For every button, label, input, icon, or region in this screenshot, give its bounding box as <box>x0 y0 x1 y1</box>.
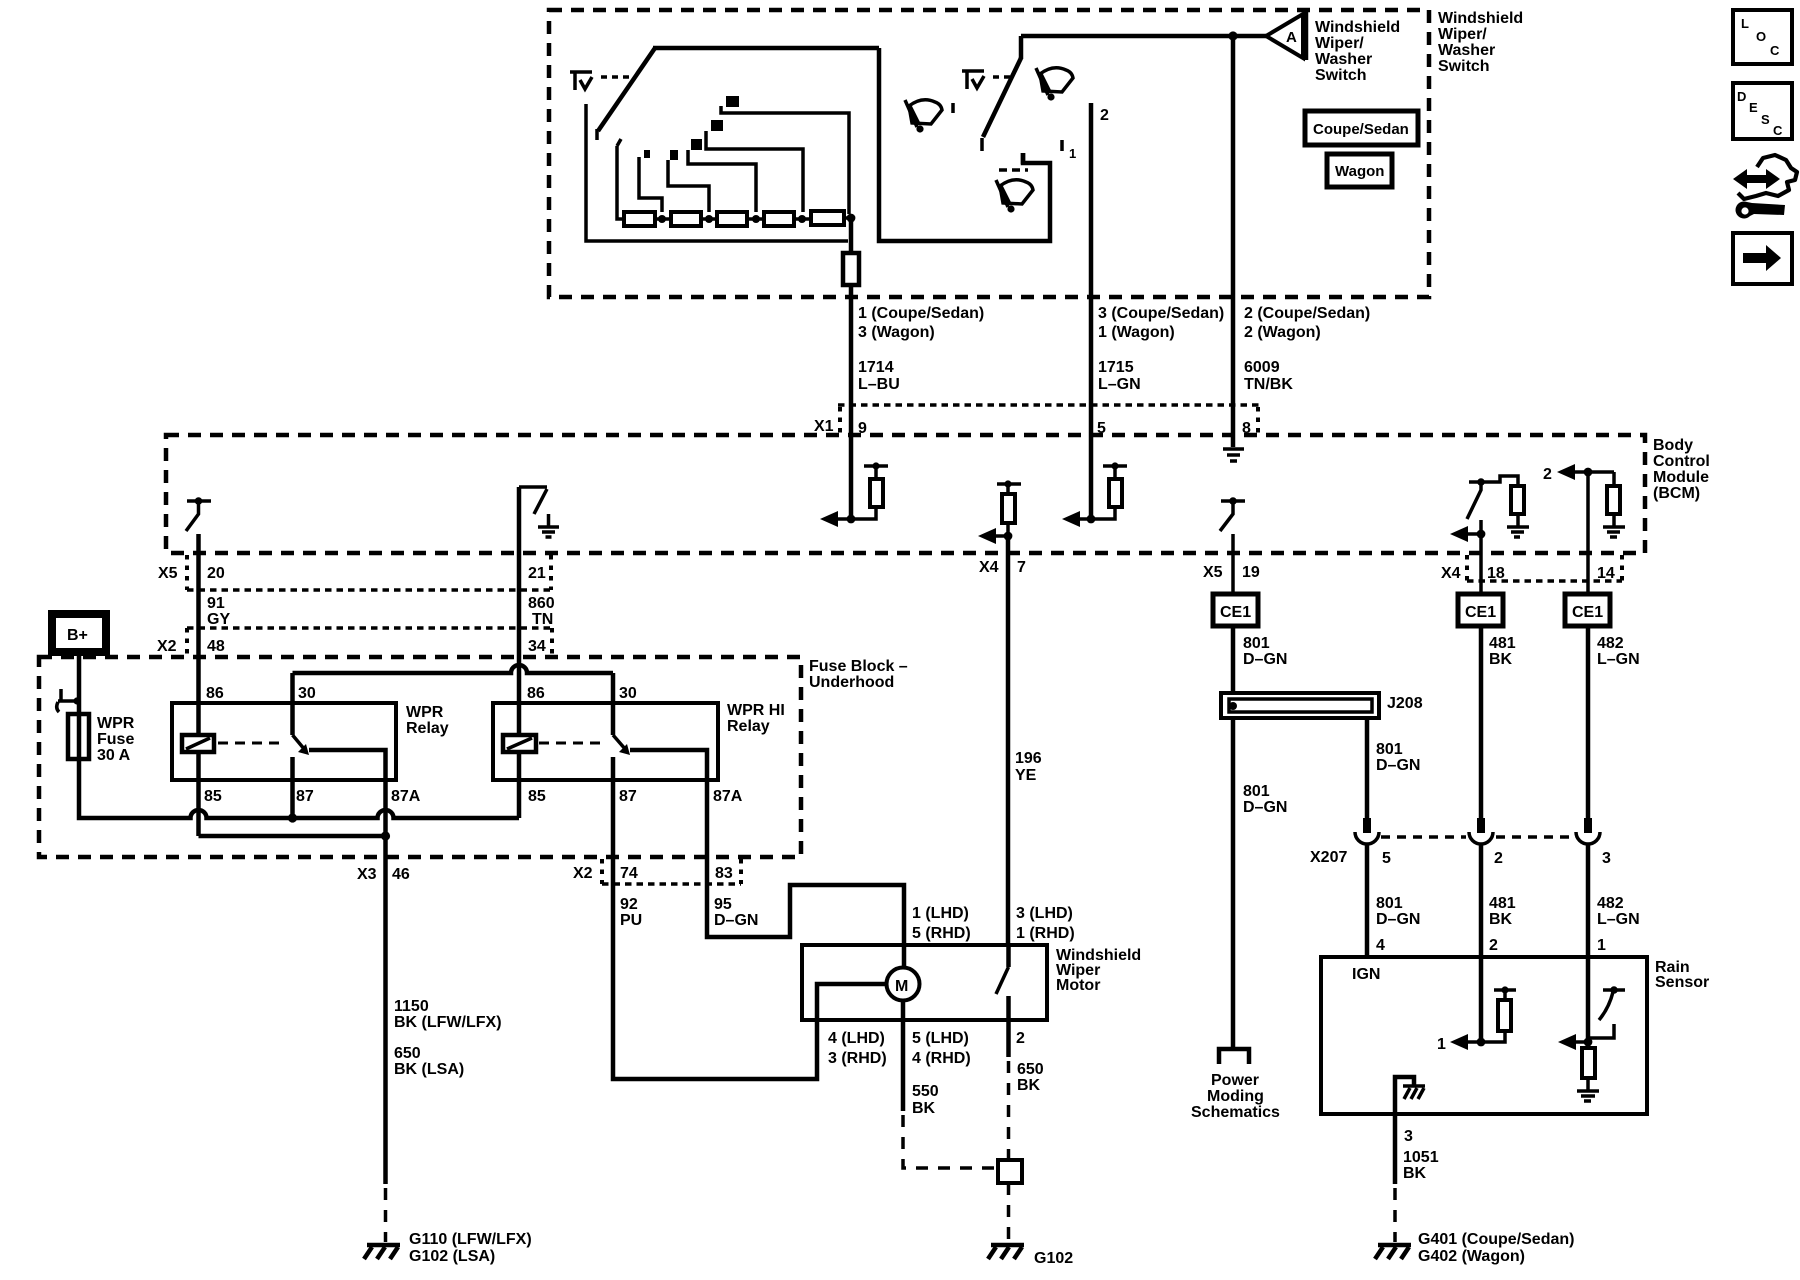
svg-text:O: O <box>1756 29 1766 44</box>
resistor R4 (delay ladder) <box>747 212 794 226</box>
washer switch t/v glyph + dashes <box>962 71 1011 89</box>
BCM pin 8 internal ground <box>1223 449 1244 461</box>
svg-text:801: 801 <box>1243 635 1270 652</box>
page icon: harness arrows + wrench <box>1733 155 1797 218</box>
wire 481 BK to rain sensor pin 2 <box>1481 843 1516 1042</box>
svg-text:801: 801 <box>1376 895 1403 912</box>
svg-text:YE: YE <box>1015 767 1037 784</box>
resistor R1 (delay ladder) <box>624 212 655 226</box>
svg-text:L–BU: L–BU <box>858 376 900 393</box>
svg-text:1 (Coupe/Sedan): 1 (Coupe/Sedan) <box>858 305 984 322</box>
wire 1051 BK to ground <box>1395 1114 1439 1242</box>
connector X207 pin 2 <box>1469 818 1493 844</box>
svg-text:Windshield: Windshield <box>1438 10 1523 27</box>
svg-text:550: 550 <box>912 1083 939 1100</box>
washer switch arm <box>982 58 1021 151</box>
rain sensor pin2 internal: arrow + resistor <box>1437 986 1516 1053</box>
svg-text:14: 14 <box>1597 565 1615 582</box>
label 196 YE <box>1015 750 1042 784</box>
connector X5 row (left) <box>158 555 551 590</box>
svg-text:Wiper/: Wiper/ <box>1438 26 1487 43</box>
tap wire D (position 2 contact) <box>668 150 709 212</box>
windshield wiper/washer switch dashed enclosure <box>549 10 1429 297</box>
relay WPR pin 87 stub <box>290 757 295 818</box>
svg-text:Coupe/Sedan: Coupe/Sedan <box>1313 121 1409 138</box>
connector CE1 (col 1) <box>1213 594 1258 626</box>
ground G401/G402 symbol <box>1375 1231 1574 1265</box>
tap wire B (position 4 contact) <box>706 120 803 212</box>
svg-text:650: 650 <box>394 1045 421 1062</box>
svg-text:83: 83 <box>715 865 733 882</box>
BCM output switch pin 18 + resistor to ground + arrow <box>1450 476 1529 594</box>
relay WPR HI: box <box>493 702 785 780</box>
ground G110/G102 symbol <box>364 1231 532 1265</box>
connector X2 row (left) <box>157 628 554 655</box>
wire: loop from top line to washer contact 1 <box>879 48 1050 241</box>
svg-text:2: 2 <box>1543 466 1552 483</box>
svg-text:Sensor: Sensor <box>1655 974 1709 991</box>
connector CE1 (col 2) <box>1458 594 1503 626</box>
wire splice to ground G102 <box>1007 1183 1011 1242</box>
ground G102 symbol <box>988 1245 1073 1267</box>
svg-text:BK (LSA): BK (LSA) <box>394 1061 464 1078</box>
svg-text:1: 1 <box>1597 937 1606 954</box>
svg-text:D–GN: D–GN <box>1376 757 1420 774</box>
svg-text:BK: BK <box>1489 651 1513 668</box>
fuse WPR 30A <box>68 714 135 764</box>
svg-text:Switch: Switch <box>1438 58 1490 75</box>
svg-text:WPR: WPR <box>97 715 135 732</box>
labels: pin 3/1 wire 1715 L-GN <box>1098 305 1224 393</box>
svg-text:2: 2 <box>1016 1030 1025 1047</box>
svg-text:87: 87 <box>296 788 314 805</box>
connector X207 pin 5 <box>1355 818 1379 844</box>
wire 801 D-GN: J208 to X207-5 <box>1367 718 1420 820</box>
svg-text:X2: X2 <box>157 638 177 655</box>
svg-text:1051: 1051 <box>1403 1149 1439 1166</box>
wire 801 D-GN: CE1 to J208 <box>1233 626 1287 693</box>
splice pack J208 <box>1221 693 1423 718</box>
svg-text:D–GN: D–GN <box>1243 799 1287 816</box>
labels 91 GY / 860 TN <box>207 595 555 628</box>
svg-text:D–GN: D–GN <box>714 912 758 929</box>
svg-text:X2: X2 <box>573 865 593 882</box>
svg-text:WPR: WPR <box>406 704 444 721</box>
wire: switch A pivot feed top line <box>653 46 879 51</box>
wiper delay switch SW-A symbol (t/v glyph + dashes) <box>570 72 629 90</box>
label box: Wagon <box>1327 154 1392 187</box>
junction dots on ladder <box>658 214 855 223</box>
svg-text:TN: TN <box>532 611 553 628</box>
svg-text:2: 2 <box>1489 937 1498 954</box>
svg-text:L–GN: L–GN <box>1597 911 1640 928</box>
wiper icon 2 <box>1036 68 1073 101</box>
svg-text:482: 482 <box>1597 895 1624 912</box>
wiper delay switch arm <box>597 48 655 140</box>
svg-text:GY: GY <box>207 611 230 628</box>
svg-text:3 (Wagon): 3 (Wagon) <box>858 324 935 341</box>
svg-text:TN/BK: TN/BK <box>1244 376 1293 393</box>
connector CE1 (col 3) <box>1565 594 1610 626</box>
svg-text:A: A <box>1286 29 1297 46</box>
body control module dashed enclosure <box>166 435 1645 553</box>
wire 1714 L-BU drop to BCM pin 9 <box>849 285 854 519</box>
svg-text:C: C <box>1773 123 1783 138</box>
svg-text:19: 19 <box>1242 564 1260 581</box>
svg-text:Wagon: Wagon <box>1335 163 1384 180</box>
svg-text:46: 46 <box>392 866 410 883</box>
svg-text:J208: J208 <box>1387 695 1423 712</box>
label: windshield wiper/washer switch (outside) <box>1438 10 1523 75</box>
wiper icon 1 <box>905 100 953 133</box>
labels 92 PU / 95 D-GN <box>620 896 758 929</box>
relay WPR HI coil-contact link <box>539 742 604 745</box>
BCM output switch pin 19 <box>1220 497 1245 594</box>
connector X207 pin 3 <box>1576 818 1600 844</box>
relay WPR coil-contact link <box>218 742 283 745</box>
relay WPR contact 87A path <box>309 750 386 836</box>
svg-text:801: 801 <box>1376 741 1403 758</box>
svg-text:G102 (LSA): G102 (LSA) <box>409 1248 495 1265</box>
connector X3/46 labels <box>357 866 410 883</box>
svg-text:5 (RHD): 5 (RHD) <box>912 925 971 942</box>
svg-text:3: 3 <box>1602 850 1611 867</box>
svg-text:D–GN: D–GN <box>1243 651 1287 668</box>
svg-text:X3: X3 <box>357 866 377 883</box>
labels: pin 1/3 wire 1714 L-BU <box>858 305 984 393</box>
wire: relay coil/87A common to ground feed <box>199 831 391 840</box>
svg-text:34: 34 <box>528 638 546 655</box>
BCM output switch pin 21 with ground <box>519 487 559 537</box>
wire 650 BK from motor pin 2 <box>1009 1020 1044 1160</box>
connector X4 row (right) <box>1441 555 1622 582</box>
wire: relay 30 bus (hops relay2 86 wire) <box>293 665 614 673</box>
svg-text:2: 2 <box>1494 850 1503 867</box>
svg-text:Power: Power <box>1211 1072 1259 1089</box>
label: Body Control Module (BCM) <box>1653 437 1710 502</box>
svg-text:X5: X5 <box>1203 564 1223 581</box>
label: windshield wiper/washer switch (inside) <box>1315 19 1400 84</box>
svg-text:21: 21 <box>528 565 546 582</box>
svg-text:30: 30 <box>298 685 316 702</box>
svg-text:G401 (Coupe/Sedan): G401 (Coupe/Sedan) <box>1418 1231 1574 1248</box>
relay WPR pin 30 wire + contact arm <box>293 673 310 755</box>
labels 1150 BK / 650 BK <box>394 998 502 1078</box>
BCM output 2 arrow + resistor to ground, pin 14 <box>1543 464 1625 594</box>
svg-text:2 (Coupe/Sedan): 2 (Coupe/Sedan) <box>1244 305 1370 322</box>
svg-text:4: 4 <box>1376 937 1385 954</box>
svg-text:X1: X1 <box>814 418 834 435</box>
svg-text:Body: Body <box>1653 437 1693 454</box>
wire 1150/650 BK to ground <box>383 836 388 1242</box>
svg-text:C: C <box>1770 43 1780 58</box>
svg-text:1714: 1714 <box>858 359 894 376</box>
relay WPR pin 85 wire <box>196 752 201 836</box>
svg-text:Control: Control <box>1653 453 1710 470</box>
svg-text:Washer: Washer <box>1438 42 1495 59</box>
svg-text:X4: X4 <box>979 559 999 576</box>
svg-text:BK: BK <box>912 1100 936 1117</box>
svg-text:IGN: IGN <box>1352 966 1380 983</box>
svg-text:(BCM): (BCM) <box>1653 485 1700 502</box>
off-page connector to power moding <box>1191 1049 1280 1121</box>
tap wire A (position 5 contact) <box>721 96 849 214</box>
svg-text:X4: X4 <box>1441 565 1461 582</box>
wire 95 D-GN: relay2 87A to motor <box>707 884 904 968</box>
svg-text:4 (LHD): 4 (LHD) <box>828 1030 885 1047</box>
svg-text:7: 7 <box>1017 559 1026 576</box>
labels: pin 2/2 wire 6009 TN/BK <box>1244 305 1370 393</box>
BCM pin 5 input: arrow + resistor <box>1062 462 1127 527</box>
svg-text:Underhood: Underhood <box>809 674 894 691</box>
svg-text:B+: B+ <box>67 627 88 644</box>
svg-text:WPR HI: WPR HI <box>727 702 785 719</box>
svg-text:3 (Coupe/Sedan): 3 (Coupe/Sedan) <box>1098 305 1224 322</box>
svg-text:1150: 1150 <box>394 998 429 1015</box>
svg-text:D: D <box>1737 89 1746 104</box>
svg-text:481: 481 <box>1489 635 1516 652</box>
svg-text:196: 196 <box>1015 750 1042 767</box>
svg-text:CE1: CE1 <box>1465 604 1496 621</box>
svg-text:30 A: 30 A <box>97 747 131 764</box>
svg-text:3 (RHD): 3 (RHD) <box>828 1050 887 1067</box>
svg-text:Relay: Relay <box>727 718 770 735</box>
motor pin labels bottom <box>828 1030 1025 1067</box>
svg-text:X207: X207 <box>1310 849 1347 866</box>
svg-text:5: 5 <box>1382 850 1391 867</box>
relay WPR HI pin 30 wire + contact arm <box>613 673 630 755</box>
svg-text:18: 18 <box>1487 565 1505 582</box>
svg-text:6009: 6009 <box>1244 359 1280 376</box>
connector triangle A <box>1266 12 1306 60</box>
connector X207 links <box>1310 837 1611 867</box>
svg-text:85: 85 <box>528 788 546 805</box>
svg-text:95: 95 <box>714 896 732 913</box>
page icon: DESC box <box>1733 83 1792 139</box>
svg-text:85: 85 <box>204 788 222 805</box>
motor pin labels top <box>912 905 1075 942</box>
wire: ladder left lead <box>617 139 624 219</box>
svg-text:481: 481 <box>1489 895 1516 912</box>
relay WPR HI contact 87A path <box>630 750 707 884</box>
svg-text:Wiper/: Wiper/ <box>1315 35 1364 52</box>
svg-text:1 (RHD): 1 (RHD) <box>1016 925 1075 942</box>
relay WPR HI pin 85 wire <box>517 752 522 818</box>
svg-text:860: 860 <box>528 595 555 612</box>
svg-text:G402 (Wagon): G402 (Wagon) <box>1418 1248 1525 1265</box>
wire 550 BK from motor brush <box>903 1000 994 1168</box>
motor M symbol <box>887 968 920 1001</box>
svg-text:30: 30 <box>619 685 637 702</box>
svg-text:G102: G102 <box>1034 1250 1073 1267</box>
resistor R2 (delay ladder) <box>655 212 701 226</box>
wire: fused B+ feed to relay contacts (hops at 85 and 87A) <box>79 759 519 823</box>
svg-text:86: 86 <box>206 685 224 702</box>
wire to connector A (top feed) <box>1021 31 1266 59</box>
wire 860 TN (BCM 21 to relay coil 86) <box>517 487 522 735</box>
svg-text:BK: BK <box>1017 1077 1041 1094</box>
svg-text:E: E <box>1749 100 1758 115</box>
relay WPR HI pin 87 stub <box>611 757 616 884</box>
svg-text:91: 91 <box>207 595 225 612</box>
svg-text:L–GN: L–GN <box>1098 376 1141 393</box>
resistor R3 (delay ladder) <box>701 212 747 226</box>
svg-text:Fuse Block –: Fuse Block – <box>809 658 908 675</box>
svg-text:20: 20 <box>207 565 225 582</box>
svg-text:Schematics: Schematics <box>1191 1104 1280 1121</box>
svg-text:2: 2 <box>1100 107 1109 124</box>
BCM output switch pin 20 <box>186 497 211 531</box>
rain sensor pin3 internal chassis ground <box>1395 1077 1425 1114</box>
svg-text:1715: 1715 <box>1098 359 1134 376</box>
wire 482 L-GN: CE1 to X207-3 <box>1588 626 1640 820</box>
svg-text:4 (RHD): 4 (RHD) <box>912 1050 971 1067</box>
relay WPR HI pin labels <box>527 685 743 805</box>
wire 91 GY (BCM 20 to relay coil 86) <box>196 534 201 735</box>
svg-text:48: 48 <box>207 638 225 655</box>
svg-text:1 (Wagon): 1 (Wagon) <box>1098 324 1175 341</box>
label X4 pin 7 <box>979 559 1026 576</box>
svg-text:M: M <box>895 978 908 995</box>
svg-text:D–GN: D–GN <box>1376 911 1420 928</box>
svg-text:BK: BK <box>1489 911 1513 928</box>
washer switch contact 1 stub <box>1021 153 1026 164</box>
wire 482 L-GN to rain sensor pin 1 <box>1588 843 1640 1048</box>
svg-text:Moding: Moding <box>1207 1088 1264 1105</box>
resistor R5 (delay ladder) <box>794 211 851 225</box>
relay WPR HI coil <box>503 735 536 752</box>
svg-text:87: 87 <box>619 788 637 805</box>
svg-text:L: L <box>1741 16 1749 31</box>
svg-text:Switch: Switch <box>1315 67 1367 84</box>
BCM pin 9 input: arrow + resistor <box>820 462 888 527</box>
svg-text:CE1: CE1 <box>1220 604 1251 621</box>
B+ feed box <box>52 614 106 652</box>
label: Fuse Block - Underhood <box>809 658 908 691</box>
fuse clip symbol <box>57 689 81 712</box>
svg-text:1: 1 <box>1069 146 1076 161</box>
svg-text:87A: 87A <box>713 788 743 805</box>
relay WPR pin labels <box>204 685 421 805</box>
wiper icon 3 (with dashed bar) <box>996 170 1033 213</box>
label box: Coupe/Sedan <box>1305 111 1418 145</box>
svg-text:86: 86 <box>527 685 545 702</box>
contact label 1 <box>1062 140 1076 161</box>
windshield wiper motor box <box>802 945 1141 1020</box>
svg-text:CE1: CE1 <box>1572 604 1603 621</box>
svg-text:Motor: Motor <box>1056 977 1100 994</box>
page icon: LOC box <box>1733 10 1792 64</box>
svg-text:Fuse: Fuse <box>97 731 134 748</box>
svg-text:5 (LHD): 5 (LHD) <box>912 1030 969 1047</box>
wire B+ to fuse <box>77 652 82 714</box>
svg-text:3: 3 <box>1404 1128 1413 1145</box>
resistor (delay output, in line) <box>843 218 859 285</box>
relay WPR: box <box>172 703 449 780</box>
svg-text:87A: 87A <box>391 788 421 805</box>
svg-text:L–GN: L–GN <box>1597 651 1640 668</box>
splice square S <box>998 1160 1022 1183</box>
svg-text:PU: PU <box>620 912 642 929</box>
svg-text:X5: X5 <box>158 565 178 582</box>
svg-text:1: 1 <box>1437 1036 1446 1053</box>
svg-text:Relay: Relay <box>406 720 449 737</box>
svg-text:3 (LHD): 3 (LHD) <box>1016 905 1073 922</box>
svg-text:2 (Wagon): 2 (Wagon) <box>1244 324 1321 341</box>
wire 481 BK: CE1 to X207-2 <box>1481 626 1516 820</box>
wire 801 D-GN: J208 down to power moding <box>1233 718 1287 1049</box>
svg-text:BK: BK <box>1403 1165 1427 1182</box>
BCM wiper park feed: resistor + arrow, wire 196 YE <box>978 480 1021 945</box>
motor park switch <box>996 945 1009 1020</box>
wire 1715 L-GN (washer pump contact 2) <box>1091 103 1109 519</box>
svg-text:1 (LHD): 1 (LHD) <box>912 905 969 922</box>
svg-text:Module: Module <box>1653 469 1709 486</box>
connector X5/19 label (right) <box>1203 564 1260 581</box>
relay WPR coil <box>182 735 214 752</box>
svg-text:650: 650 <box>1017 1061 1044 1078</box>
page icon: arrow box <box>1733 233 1792 284</box>
wire 6009 TN/BK drop to BCM pin 8 <box>1231 36 1236 447</box>
svg-text:S: S <box>1761 112 1770 127</box>
wire 92 PU: relay2 87 to motor <box>613 884 887 1079</box>
connector X1 row <box>814 405 1262 437</box>
svg-text:G110 (LFW/LFX): G110 (LFW/LFX) <box>409 1231 532 1248</box>
rain sensor box <box>1321 957 1709 1114</box>
svg-text:92: 92 <box>620 896 638 913</box>
svg-text:801: 801 <box>1243 783 1270 800</box>
tap wire E (position 1 contact) <box>639 150 662 212</box>
tap wire C (position 3 contact) <box>688 139 756 212</box>
rain sensor pin1 internal: switch + arrow + resistor to ground <box>1558 986 1625 1101</box>
fuse block underhood dashed enclosure <box>39 657 801 857</box>
svg-text:BK (LFW/LFX): BK (LFW/LFX) <box>394 1014 502 1031</box>
svg-text:74: 74 <box>620 865 638 882</box>
connector X2 row (74/83) <box>573 859 741 884</box>
svg-text:Washer: Washer <box>1315 51 1372 68</box>
wire 801 D-GN to rain sensor pin 4 <box>1367 843 1420 957</box>
svg-text:Windshield: Windshield <box>1315 19 1400 36</box>
svg-text:482: 482 <box>1597 635 1624 652</box>
node: delay ladder common (left vertical + bottom line) <box>586 104 848 241</box>
